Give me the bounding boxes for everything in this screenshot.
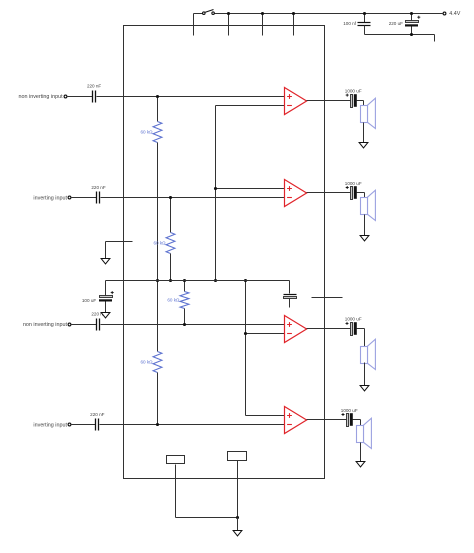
- svg-text:non inverting input: non inverting input: [23, 322, 68, 328]
- svg-text:60 kΩ: 60 kΩ: [140, 130, 153, 135]
- svg-text:220 nF: 220 nF: [87, 83, 101, 88]
- svg-text:220 nF: 220 nF: [90, 412, 104, 417]
- svg-text:60 kΩ: 60 kΩ: [140, 360, 153, 365]
- svg-text:1000 uF: 1000 uF: [341, 408, 358, 413]
- svg-text:100 nf: 100 nf: [343, 21, 356, 26]
- svg-text:60 kΩ: 60 kΩ: [153, 241, 166, 246]
- svg-text:1000 uF: 1000 uF: [345, 88, 362, 93]
- svg-text:inverting input: inverting input: [33, 423, 67, 429]
- svg-text:inverting input: inverting input: [33, 195, 67, 201]
- svg-text:1000 uF: 1000 uF: [345, 317, 362, 322]
- svg-text:220 nF: 220 nF: [91, 185, 105, 190]
- svg-text:non inverting input: non inverting input: [19, 94, 64, 100]
- svg-text:4.4V: 4.4V: [449, 11, 460, 17]
- svg-text:220 uF: 220 uF: [389, 21, 403, 26]
- svg-text:1000 uF: 1000 uF: [345, 181, 362, 186]
- svg-text:60 kΩ: 60 kΩ: [167, 298, 180, 303]
- svg-text:100 uF: 100 uF: [82, 298, 96, 303]
